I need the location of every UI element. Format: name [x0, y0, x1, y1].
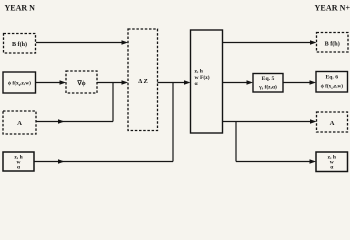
box A right (dashed) — [317, 112, 348, 132]
svg-text:w F(z): w F(z) — [195, 74, 210, 81]
svg-text:YEAR N: YEAR N — [5, 4, 36, 13]
box z,h,w F(z),alpha tall (solid) — [191, 30, 223, 133]
svg-text:A: A — [17, 120, 22, 127]
wire bottom-left state to riser — [34, 159, 173, 164]
box A left (dashed) — [3, 111, 36, 134]
box z,h,w,alpha bottom-right (solid) — [316, 152, 348, 172]
box nabla-phi (dashed) — [66, 71, 97, 93]
svg-text:Eq. 5: Eq. 5 — [262, 76, 275, 82]
wire to bottom-right state box — [236, 159, 316, 164]
svg-text:γs f(z,α): γs f(z,α) — [258, 83, 277, 90]
box Delta-Z tall (dashed) — [128, 29, 158, 131]
box z,h,w,alpha bottom-left (solid) — [3, 152, 34, 171]
wire B f(h) to Delta-Z — [36, 40, 128, 45]
wire A to junction — [36, 119, 113, 124]
box Eq. 6 (solid) — [316, 72, 348, 93]
svg-text:ϕ f(xs,z,w): ϕ f(xs,z,w) — [321, 83, 344, 90]
label YEAR N — [5, 4, 36, 13]
box B f(h) right (dashed) — [317, 33, 349, 53]
wire state box to A right — [223, 119, 317, 124]
svg-text:B f(h): B f(h) — [325, 40, 340, 47]
svg-text:z, h: z, h — [195, 69, 204, 75]
wire state box to Eq. 5 — [223, 80, 254, 85]
wire Eq. 5 to Eq. 6 — [283, 80, 316, 85]
svg-text:A: A — [330, 120, 335, 127]
wire Delta-Z to state box — [158, 80, 191, 85]
box B f(h) left (dashed) — [4, 34, 36, 54]
wire phi-box to nabla-phi — [36, 80, 67, 85]
box Eq. 5 (solid) — [253, 74, 283, 93]
svg-text:Δ Z: Δ Z — [138, 78, 148, 85]
svg-text:ϕ f(xs,z,w): ϕ f(xs,z,w) — [8, 80, 31, 87]
svg-text:B f(h): B f(h) — [12, 41, 27, 48]
wire riser from bottom-left state line — [172, 83, 174, 162]
wire nabla-phi to Delta-Z — [97, 80, 128, 85]
wire dropper to bottom-right line — [235, 122, 237, 162]
label YEAR N+1 — [315, 4, 350, 13]
wire junction riser from A line — [112, 83, 114, 122]
svg-text:Eq. 6: Eq. 6 — [325, 75, 338, 81]
svg-text:YEAR N+1: YEAR N+1 — [315, 4, 350, 13]
wire state box to B f(h) right — [223, 40, 317, 45]
svg-text:∇ϕ: ∇ϕ — [76, 80, 85, 87]
box phi f(xs,z,w) left (solid) — [3, 72, 36, 93]
